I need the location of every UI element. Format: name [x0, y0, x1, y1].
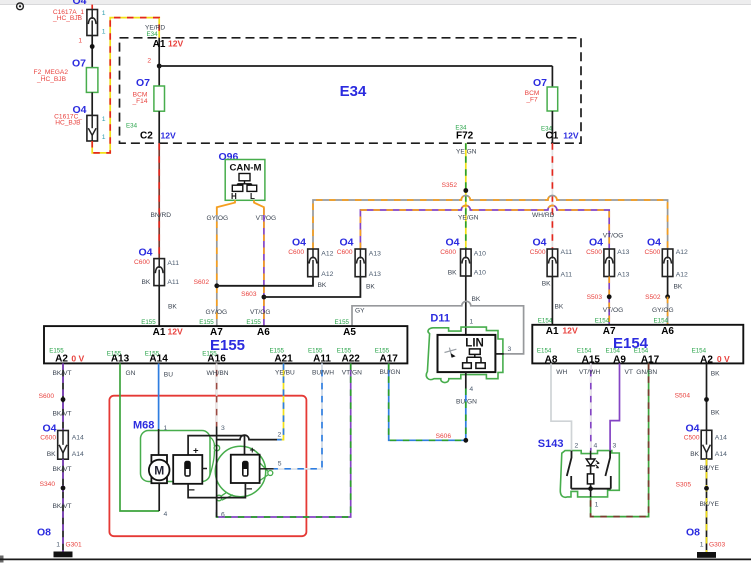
wire RD supply into C1617A	[91, 5, 93, 10]
actuator cell 1 of M68	[173, 445, 207, 496]
wire BK fuse F7 to C1	[551, 111, 553, 143]
svg-text:H: H	[231, 192, 237, 201]
wire GY/OG S502 to E154 A6	[652, 297, 674, 325]
svg-text:_F14: _F14	[131, 98, 147, 105]
svg-text:S143: S143	[538, 438, 564, 450]
svg-text:A11: A11	[561, 249, 573, 256]
node F72 of E34	[455, 125, 476, 156]
svg-text:1: 1	[102, 10, 106, 17]
svg-text:HC_BJB: HC_BJB	[55, 119, 81, 126]
fuse O7 F2_MEGA2_HC_BJB	[34, 58, 98, 93]
svg-text:O8: O8	[37, 526, 51, 538]
svg-text:VT/WH: VT/WH	[579, 369, 600, 376]
pin A1 12V of E154	[538, 318, 578, 337]
module E155 box	[44, 326, 407, 363]
svg-text:BK: BK	[448, 270, 457, 277]
splice S340	[40, 481, 66, 490]
svg-text:O4: O4	[589, 237, 603, 249]
svg-text:BK: BK	[711, 371, 720, 378]
svg-text:E155: E155	[199, 319, 214, 326]
splice S504	[675, 392, 709, 402]
svg-text:1: 1	[78, 38, 82, 45]
wire BN/RD C2 to connector A11 left	[151, 143, 172, 258]
svg-text:VT/OG: VT/OG	[603, 307, 624, 314]
svg-text:O4: O4	[445, 237, 459, 249]
svg-text:C600: C600	[440, 249, 456, 256]
clipped O4 label top edge	[72, 0, 86, 7]
pin A9 of E154	[606, 348, 627, 366]
fuse O7 BCM_F7	[525, 77, 558, 111]
svg-text:A7: A7	[210, 327, 223, 338]
svg-text:A14: A14	[72, 451, 84, 458]
connector O4 C500 A13 right	[586, 233, 629, 279]
actuator M68 red boundary box	[109, 396, 306, 537]
LED pin4 of S143	[586, 443, 599, 474]
green annotation actuator balloon	[215, 446, 272, 501]
svg-text:BU: BU	[164, 371, 173, 378]
svg-text:O4: O4	[42, 422, 56, 434]
svg-text:LIN: LIN	[465, 337, 484, 349]
connector O4 C1617A_1_HC_BJB	[52, 9, 106, 45]
svg-text:6: 6	[221, 512, 225, 519]
wire VT E154 A9 to S143 pin3	[610, 363, 633, 450]
svg-text:12V: 12V	[168, 39, 184, 49]
wire BK minus bus of M68	[188, 483, 245, 498]
svg-text:GN/BN: GN/BN	[636, 369, 657, 376]
svg-text:BK/YE: BK/YE	[700, 465, 720, 472]
svg-text:BK/VT: BK/VT	[53, 370, 72, 377]
wire BU/GN E155 A17 to S606	[380, 363, 466, 440]
svg-text:BU/GN: BU/GN	[380, 369, 401, 376]
wire BK jumper A13-left to S603	[264, 277, 375, 297]
wire BK junction to fuse F14	[158, 66, 160, 86]
svg-text:O4: O4	[532, 237, 546, 249]
svg-text:2: 2	[278, 432, 282, 439]
wire OG stub CAN-H	[217, 200, 235, 209]
wire GY/OG CAN-H bus A12 to A12	[313, 196, 668, 249]
svg-text:VT/OG: VT/OG	[250, 309, 271, 316]
svg-text:A16: A16	[207, 354, 226, 365]
svg-text:BK/VT: BK/VT	[53, 411, 72, 418]
svg-text:A12: A12	[321, 251, 333, 258]
junction on E34 A1 feed	[157, 64, 162, 69]
svg-text:A5: A5	[343, 327, 356, 338]
wire BK A11-left to E155 A1	[159, 286, 177, 327]
svg-text:BK: BK	[168, 304, 177, 311]
pin A22 of E155	[337, 348, 361, 365]
svg-text:S305: S305	[676, 481, 692, 488]
module E34 dashed box	[120, 38, 582, 143]
svg-text:A12: A12	[676, 249, 688, 256]
node C1 12V of E34	[541, 126, 579, 142]
svg-text:BK: BK	[690, 451, 699, 458]
svg-text:A10: A10	[474, 251, 486, 258]
wire BK motor to M68 pin4	[159, 483, 167, 518]
wire VT/WH E154 A15 to S143 pin4	[579, 363, 600, 450]
svg-text:O8: O8	[686, 526, 700, 538]
svg-text:BK/YE: BK/YE	[700, 501, 720, 508]
op-amp D11 LIN box	[430, 313, 511, 394]
svg-text:E154: E154	[692, 348, 707, 355]
wire BK fuse F14 to C2	[158, 111, 160, 143]
svg-text:A6: A6	[257, 327, 270, 338]
wire BU/GN LIN pin4 to S606	[456, 389, 477, 441]
svg-text:2: 2	[147, 58, 151, 65]
svg-text:D11: D11	[430, 313, 450, 325]
wire BK/YE connector to ground right	[700, 459, 720, 552]
svg-text:E154: E154	[606, 348, 621, 355]
svg-text:−: −	[246, 484, 252, 496]
wire GN/BN E154 A17 to S143 pin1	[591, 363, 658, 516]
splice S602	[194, 279, 220, 288]
svg-text:A13: A13	[369, 271, 381, 278]
svg-text:0 V: 0 V	[71, 353, 84, 363]
svg-text:E34: E34	[126, 123, 138, 130]
svg-text:WH/RD: WH/RD	[532, 212, 555, 219]
svg-text:VT: VT	[625, 369, 633, 376]
connector O4 C600 A13 left	[337, 237, 381, 278]
svg-text:BU/WH: BU/WH	[312, 369, 334, 376]
svg-text:A2: A2	[55, 354, 68, 365]
svg-text:S600: S600	[39, 393, 55, 400]
svg-text:+: +	[250, 445, 256, 456]
connector O4 C600 A14 left	[40, 422, 84, 459]
svg-text:A17: A17	[380, 354, 399, 365]
svg-text:A11: A11	[313, 354, 331, 365]
splice S502	[645, 294, 670, 301]
svg-text:O4: O4	[339, 237, 353, 249]
splice S600	[39, 393, 66, 402]
svg-text:C600: C600	[40, 434, 56, 441]
splice S606	[436, 433, 469, 443]
svg-text:S602: S602	[194, 279, 210, 286]
svg-text:O7: O7	[72, 58, 86, 70]
wire BK S143 pin1 stub	[591, 489, 599, 509]
svg-text:1: 1	[102, 134, 106, 141]
bottom page border line	[0, 556, 751, 563]
svg-text:4: 4	[164, 511, 168, 518]
wire BK M68 pin6 drop	[217, 498, 225, 519]
svg-text:A10: A10	[474, 270, 486, 277]
svg-text:BK/VT: BK/VT	[53, 466, 72, 473]
svg-text:1: 1	[102, 116, 106, 123]
svg-text:2: 2	[575, 443, 579, 450]
wire BK M68 pin1 to motor	[159, 425, 168, 455]
svg-text:S340: S340	[40, 481, 56, 488]
svg-text:G303: G303	[709, 541, 725, 548]
wire OG stub CAN-L	[254, 200, 264, 209]
svg-text:A21: A21	[274, 354, 293, 365]
wire BK LIN pin3 stub	[495, 353, 503, 355]
svg-text:O7: O7	[533, 77, 547, 89]
svg-text:S503: S503	[587, 294, 603, 301]
connector O4 C500 A11 right	[530, 237, 573, 288]
svg-text:C500: C500	[684, 434, 700, 441]
svg-text:BK: BK	[366, 284, 375, 291]
svg-text:BK: BK	[711, 410, 720, 417]
svg-text:4: 4	[469, 386, 473, 393]
connector O4 C500 A12 right	[645, 237, 688, 279]
svg-text:S603: S603	[241, 291, 257, 298]
wire VT/OG CAN-L bus A13 to A13	[360, 206, 609, 250]
svg-text:YE/GN: YE/GN	[458, 215, 479, 222]
svg-text:−: −	[189, 485, 195, 497]
svg-text:A11: A11	[167, 279, 179, 286]
top toolbar strip	[0, 0, 751, 5]
pin A2 0V of E154	[692, 348, 730, 366]
svg-text:1: 1	[56, 541, 60, 548]
wire BK A11-right to E154 A1	[552, 277, 563, 325]
wire BK A1 to junction	[158, 38, 160, 66]
pin A1 12V of E155	[141, 319, 183, 338]
svg-text:E155: E155	[141, 319, 156, 326]
svg-text:1: 1	[164, 425, 168, 432]
connector O4 C500 A14 right	[684, 422, 727, 459]
svg-text:E154: E154	[577, 348, 592, 355]
wire BU/WH E155 A11 to M68 pin5	[274, 363, 335, 468]
resistor of S143	[587, 474, 593, 489]
svg-text:BK: BK	[542, 281, 551, 288]
svg-text:5: 5	[278, 461, 282, 468]
svg-text:A13: A13	[617, 272, 629, 279]
svg-text:A11: A11	[561, 272, 573, 279]
svg-text:E34: E34	[147, 31, 159, 38]
svg-text:O4: O4	[292, 237, 306, 249]
pin A6 of E154	[654, 318, 675, 337]
pin A17 of E154	[634, 348, 660, 366]
svg-text:BK: BK	[47, 451, 56, 458]
svg-text:GY: GY	[355, 307, 365, 314]
svg-text:O4: O4	[72, 0, 86, 7]
node C2 12V of E34	[126, 123, 176, 142]
svg-text:VT/OG: VT/OG	[603, 233, 624, 240]
wire BK/VT E155 A2 to ground G301	[53, 363, 72, 430]
wire BU E155 A14 to M68 pin1	[159, 363, 174, 429]
wire WH/RD C1 to connector A11 right	[532, 143, 555, 249]
svg-text:A13: A13	[111, 354, 130, 365]
svg-text:A1: A1	[153, 327, 166, 338]
svg-text:E154: E154	[537, 348, 552, 355]
svg-text:C500: C500	[645, 249, 661, 256]
connector O4 C600 A11 left	[134, 246, 179, 286]
splice S352	[442, 182, 469, 193]
svg-text:12V: 12V	[562, 326, 578, 336]
wire YE/RD C1617C to E34 A1	[92, 18, 159, 153]
wire BK E154 A2 to connector right	[707, 363, 721, 430]
svg-text:BK: BK	[472, 296, 481, 303]
pin A7 of E154	[595, 318, 616, 337]
svg-text:A14: A14	[72, 435, 84, 442]
node A1 12V of E34	[145, 24, 184, 64]
splice S305	[676, 481, 709, 490]
svg-text:C600: C600	[134, 259, 150, 266]
actuator cell 2 of M68	[231, 445, 260, 496]
svg-text:1: 1	[595, 502, 599, 509]
svg-text:E34: E34	[340, 83, 367, 100]
svg-text:A14: A14	[715, 435, 727, 442]
svg-text:BN/RD: BN/RD	[151, 212, 172, 219]
svg-text:G301: G301	[66, 541, 82, 548]
wire BK bus inside E34	[159, 65, 552, 67]
svg-text:WH/BN: WH/BN	[207, 370, 229, 377]
wire BK plus bus battery1 to battery2	[188, 436, 244, 455]
ground G303	[686, 526, 725, 557]
pin A6 of E155	[246, 319, 270, 338]
svg-text:M: M	[154, 464, 164, 478]
switch blade pin2 of S143	[567, 443, 579, 489]
pin A7 of E155	[199, 319, 223, 338]
svg-text:A22: A22	[342, 354, 361, 365]
connector O4 C600 A12 left	[288, 237, 333, 278]
svg-text:A6: A6	[661, 326, 674, 337]
svg-text:A11: A11	[167, 260, 179, 267]
svg-text:1: 1	[102, 29, 106, 36]
motor M of M68	[149, 455, 170, 483]
svg-text:GY/OG: GY/OG	[652, 307, 674, 314]
svg-text:O7: O7	[136, 77, 150, 89]
connector O4 C600 A10	[440, 237, 486, 277]
wire BK/VT connector to ground left	[53, 459, 72, 551]
svg-text:12V: 12V	[168, 327, 184, 337]
svg-text:F72: F72	[456, 131, 474, 142]
wire BK LIN pin4 stub	[465, 372, 467, 388]
wire VT/GN E155 A22 to M68 pin6	[217, 363, 362, 517]
svg-text:1: 1	[700, 541, 704, 548]
svg-text:3: 3	[221, 425, 225, 432]
svg-text:A13: A13	[617, 249, 629, 256]
svg-text:YE/BU: YE/BU	[275, 369, 295, 376]
wire YE/BU E155 A21 to M68 pin2	[275, 363, 295, 439]
svg-text:BK: BK	[555, 304, 564, 311]
svg-text:A14: A14	[149, 354, 168, 365]
svg-text:_F7: _F7	[525, 97, 538, 104]
svg-text:4: 4	[594, 443, 598, 450]
pin A5 of E155	[335, 319, 357, 338]
svg-text:O4: O4	[685, 422, 699, 434]
svg-text:L: L	[250, 192, 255, 201]
wire WH E154 A8 to S143 pin2	[551, 363, 572, 450]
wire BK C1617A to fuse	[90, 36, 95, 68]
svg-text:C600: C600	[288, 249, 304, 256]
fuse O7 BCM_F14	[131, 77, 164, 111]
pin A2 0V of E155	[49, 348, 84, 365]
ground G301	[37, 526, 82, 557]
wire BK M68 pin2 with hop	[217, 432, 282, 440]
svg-text:WH: WH	[556, 369, 567, 376]
svg-text:3: 3	[613, 443, 617, 450]
svg-text:BK: BK	[674, 284, 683, 291]
wire BK M68 pin5 stub	[260, 461, 282, 469]
svg-text:S606: S606	[436, 433, 452, 440]
svg-text:GY/OG: GY/OG	[206, 309, 228, 316]
pin A21 of E155	[270, 348, 294, 365]
svg-text:1: 1	[469, 318, 473, 325]
svg-text:C500: C500	[530, 249, 546, 256]
svg-text:E154: E154	[654, 318, 669, 325]
pin A16 of E155	[202, 351, 226, 365]
svg-text:A7: A7	[603, 326, 616, 337]
wire YE/GN F72 to connector A10	[458, 143, 479, 249]
svg-text:A1: A1	[546, 326, 559, 337]
svg-text:E155: E155	[335, 319, 350, 326]
record icon top-left	[17, 3, 24, 10]
splice S603	[241, 291, 266, 300]
svg-text:O4: O4	[138, 246, 152, 258]
svg-text:12V: 12V	[563, 130, 579, 140]
svg-text:_HC_BJB: _HC_BJB	[36, 76, 67, 83]
svg-text:S502: S502	[645, 294, 661, 301]
wire BK A10 to LIN pin1	[466, 276, 481, 335]
svg-text:S352: S352	[442, 182, 458, 189]
svg-text:A17: A17	[641, 355, 660, 366]
wire BK jumper A12-left to S602	[217, 277, 327, 289]
pin A17 of E155	[375, 348, 399, 365]
pin A11 of E155	[308, 348, 331, 365]
wire BK A12-right to S502	[668, 277, 683, 297]
svg-text:C500: C500	[586, 249, 602, 256]
wire GN E155 A13 to M68 pin4	[120, 363, 159, 511]
svg-text:+: +	[193, 445, 199, 456]
wire BK fuse to C1617C	[91, 92, 93, 115]
pin A15 of E154	[577, 348, 601, 366]
svg-text:A13: A13	[369, 251, 381, 258]
svg-text:E155: E155	[246, 319, 261, 326]
svg-text:E154: E154	[634, 348, 649, 355]
wire VT/OG A13-right to E154 A7	[603, 277, 624, 325]
common bar of S143	[571, 486, 611, 491]
pin A13 of E155	[107, 351, 130, 365]
svg-text:C2: C2	[140, 131, 153, 142]
module O96 CAN-M	[219, 151, 265, 201]
svg-text:3: 3	[508, 346, 512, 353]
svg-text:0 V: 0 V	[717, 354, 730, 364]
svg-text:A12: A12	[676, 272, 688, 279]
svg-text:A14: A14	[715, 451, 727, 458]
svg-text:C1: C1	[546, 131, 559, 142]
svg-text:BK/VT: BK/VT	[53, 503, 72, 510]
svg-text:S504: S504	[675, 392, 691, 399]
svg-text:VT/GN: VT/GN	[342, 369, 362, 376]
svg-text:E154: E154	[538, 318, 553, 325]
wire GY E155 A5 to LIN pin3	[352, 301, 524, 354]
pin A8 of E154	[537, 348, 558, 366]
svg-text:BK: BK	[142, 279, 151, 286]
svg-text:O96: O96	[219, 151, 239, 163]
svg-text:_HC_BJB: _HC_BJB	[52, 15, 83, 22]
module D11 green outline	[426, 327, 503, 382]
splice S503	[587, 294, 612, 301]
svg-text:VT/OG: VT/OG	[256, 215, 277, 222]
wire VT/OG CAN-M to E155 A6	[250, 209, 276, 327]
svg-text:CAN-M: CAN-M	[230, 162, 262, 173]
svg-text:C600: C600	[337, 249, 353, 256]
green annotation motor group	[141, 431, 220, 482]
wire GY/OG CAN-M to E155 A7	[206, 209, 229, 327]
svg-text:E154: E154	[595, 318, 610, 325]
module E154 box	[532, 325, 743, 364]
wire WH/BN E155 A16 to M68 pin3	[207, 363, 229, 426]
svg-text:A12: A12	[321, 271, 333, 278]
wire BK M68 pin3 drop	[217, 425, 225, 498]
switch blade pin3 of S143	[605, 443, 616, 489]
svg-text:BK: BK	[318, 282, 327, 289]
svg-text:12V: 12V	[161, 130, 177, 140]
svg-text:GN: GN	[126, 370, 136, 377]
switch S143 green outline	[538, 438, 620, 497]
connector O4 C1617C_HC_BJB	[54, 104, 106, 141]
wire BK bus to fuse F7	[551, 66, 553, 87]
pin A14 of E155	[145, 351, 169, 365]
